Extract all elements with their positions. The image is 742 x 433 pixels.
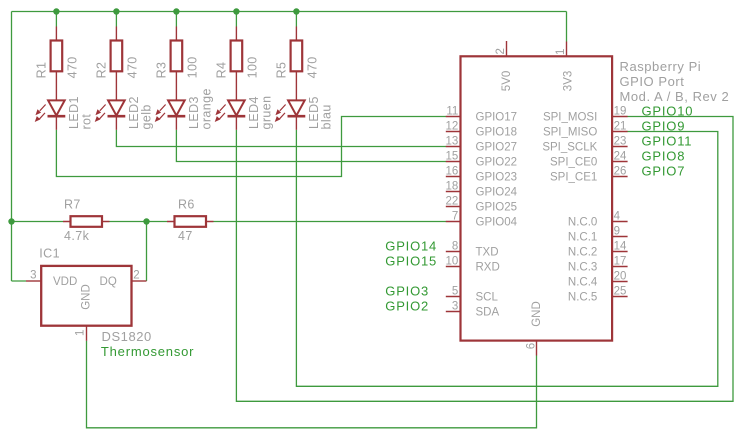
svg-text:GPIO9: GPIO9 [642, 118, 686, 133]
svg-text:SPI_MOSI: SPI_MOSI [543, 112, 597, 124]
svg-text:IC1: IC1 [39, 247, 60, 261]
svg-text:3: 3 [452, 301, 458, 313]
svg-text:SDA: SDA [476, 307, 500, 319]
svg-text:23: 23 [614, 136, 627, 148]
svg-text:25: 25 [614, 286, 627, 298]
svg-text:GPIO7: GPIO7 [642, 163, 686, 178]
svg-text:Thermosensor: Thermosensor [101, 344, 194, 359]
svg-text:3V3: 3V3 [563, 71, 575, 91]
svg-text:1: 1 [555, 49, 567, 55]
svg-text:DQ: DQ [100, 276, 117, 288]
svg-text:GPIO23: GPIO23 [476, 172, 518, 184]
svg-text:GPIO11: GPIO11 [642, 133, 693, 148]
svg-text:GPIO24: GPIO24 [476, 187, 518, 199]
svg-text:GPIO22: GPIO22 [476, 157, 518, 169]
svg-text:GPIO04: GPIO04 [476, 217, 518, 229]
svg-text:R4: R4 [214, 62, 228, 79]
svg-text:19: 19 [614, 106, 627, 118]
svg-text:N.C.3: N.C.3 [568, 262, 597, 274]
svg-text:GPIO2: GPIO2 [385, 299, 429, 314]
svg-text:14: 14 [614, 241, 627, 253]
svg-text:Mod. A / B, Rev 2: Mod. A / B, Rev 2 [620, 89, 730, 104]
svg-text:5V0: 5V0 [501, 71, 513, 91]
svg-text:SCL: SCL [476, 292, 499, 304]
svg-text:GPIO8: GPIO8 [642, 148, 686, 163]
svg-text:15: 15 [446, 151, 459, 163]
svg-text:24: 24 [614, 151, 627, 163]
svg-text:orange: orange [199, 88, 213, 129]
svg-text:R2: R2 [94, 62, 108, 79]
svg-text:GPIO3: GPIO3 [385, 284, 429, 299]
svg-text:R6: R6 [178, 198, 195, 212]
svg-text:N.C.5: N.C.5 [568, 292, 597, 304]
svg-text:10: 10 [446, 256, 459, 268]
svg-text:GPIO25: GPIO25 [476, 202, 518, 214]
svg-text:13: 13 [446, 136, 459, 148]
svg-text:47: 47 [178, 229, 193, 243]
svg-text:N.C.1: N.C.1 [568, 232, 597, 244]
svg-text:SPI_MISO: SPI_MISO [543, 127, 597, 139]
svg-text:6: 6 [526, 343, 538, 349]
svg-text:16: 16 [446, 166, 459, 178]
svg-text:470: 470 [126, 56, 140, 78]
svg-text:5: 5 [452, 286, 458, 298]
svg-text:gelb: gelb [139, 104, 153, 129]
svg-text:gruen: gruen [259, 96, 273, 130]
svg-text:rot: rot [79, 114, 93, 130]
svg-text:GPIO15: GPIO15 [385, 254, 437, 269]
svg-text:GND: GND [531, 301, 543, 327]
svg-text:470: 470 [306, 56, 320, 78]
svg-text:R7: R7 [64, 198, 81, 212]
svg-text:100: 100 [246, 56, 260, 78]
svg-text:11: 11 [446, 106, 458, 118]
svg-text:2: 2 [133, 270, 139, 282]
svg-text:GPIO10: GPIO10 [642, 103, 694, 118]
svg-text:GND: GND [81, 284, 93, 310]
svg-text:21: 21 [614, 121, 627, 133]
svg-text:4: 4 [614, 211, 621, 223]
svg-text:22: 22 [446, 196, 459, 208]
svg-text:DS1820: DS1820 [102, 329, 152, 344]
svg-text:blau: blau [319, 104, 333, 129]
svg-text:Raspberry Pi: Raspberry Pi [620, 59, 702, 74]
svg-text:N.C.2: N.C.2 [568, 247, 597, 259]
svg-text:3: 3 [30, 270, 36, 282]
svg-text:GPIO Port: GPIO Port [620, 74, 685, 89]
svg-text:N.C.0: N.C.0 [568, 217, 597, 229]
svg-text:GPIO27: GPIO27 [476, 142, 518, 154]
svg-text:SPI_CE1: SPI_CE1 [550, 172, 597, 184]
svg-text:7: 7 [452, 211, 458, 223]
svg-text:R3: R3 [154, 62, 168, 79]
svg-text:VDD: VDD [53, 276, 77, 288]
svg-text:26: 26 [614, 166, 627, 178]
svg-text:4.7k: 4.7k [64, 229, 90, 243]
svg-text:100: 100 [186, 56, 200, 78]
svg-text:2: 2 [495, 48, 507, 54]
svg-text:GPIO14: GPIO14 [385, 239, 437, 254]
svg-text:RXD: RXD [476, 262, 500, 274]
svg-text:8: 8 [452, 241, 458, 253]
svg-text:17: 17 [614, 256, 627, 268]
svg-text:9: 9 [614, 226, 620, 238]
svg-text:N.C.4: N.C.4 [568, 277, 598, 289]
svg-text:12: 12 [446, 121, 459, 133]
svg-text:GPIO17: GPIO17 [476, 112, 518, 124]
svg-text:SPI_SCLK: SPI_SCLK [542, 142, 597, 154]
svg-text:R5: R5 [274, 62, 288, 79]
svg-text:SPI_CE0: SPI_CE0 [550, 157, 597, 169]
svg-text:470: 470 [66, 56, 80, 78]
svg-text:18: 18 [446, 181, 459, 193]
svg-text:GPIO18: GPIO18 [476, 127, 518, 139]
svg-text:R1: R1 [34, 62, 48, 79]
svg-text:1: 1 [74, 330, 86, 336]
svg-text:TXD: TXD [476, 247, 499, 259]
svg-text:20: 20 [614, 271, 627, 283]
